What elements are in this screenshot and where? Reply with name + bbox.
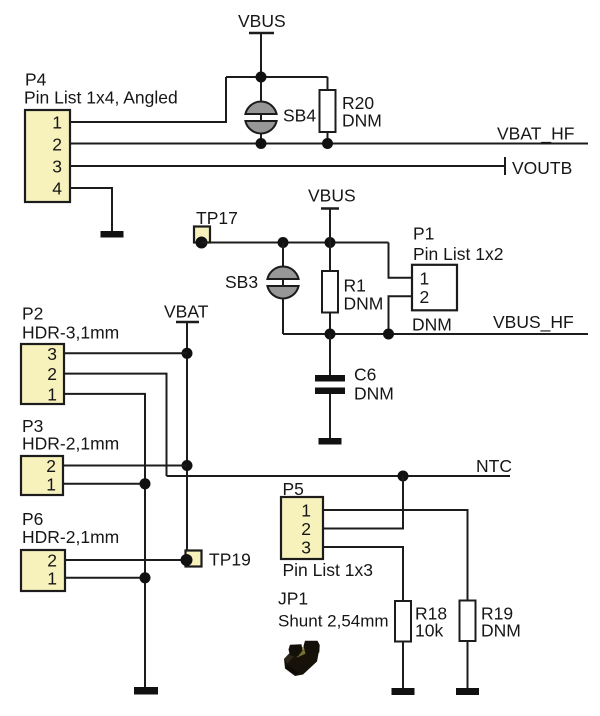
connector P5 <box>281 479 373 580</box>
svg-text:TP17: TP17 <box>196 208 238 228</box>
svg-text:VOUTB: VOUTB <box>512 158 572 178</box>
svg-text:1: 1 <box>47 568 57 588</box>
node P6 pin1 junction <box>140 572 151 583</box>
node SB4 bottom on VBAT_HF <box>256 138 267 149</box>
wire P4 pin4 to ground <box>70 188 112 232</box>
solder bridge SB3 <box>225 267 299 299</box>
wire R19 bottom lead <box>467 641 469 688</box>
connector P6 <box>21 509 119 591</box>
node R20 bottom on VBAT_HF <box>322 138 333 149</box>
net VBAT_HF wire <box>70 143 588 145</box>
solder bridge SB4 <box>245 102 316 134</box>
node P3 pin1 junction <box>140 478 151 489</box>
wire P5 pin2 up to NTC <box>323 476 403 529</box>
svg-text:HDR-2,1mm: HDR-2,1mm <box>22 434 119 454</box>
svg-text:VBUS: VBUS <box>308 186 356 206</box>
wire VBAT vertical <box>186 323 188 560</box>
svg-text:HDR-3,1mm: HDR-3,1mm <box>22 323 119 343</box>
svg-text:3: 3 <box>47 344 57 364</box>
svg-text:1: 1 <box>52 113 62 133</box>
net label VBUS (top) <box>238 11 286 33</box>
node R1 bottom on VBUS_HF <box>325 329 336 340</box>
svg-text:2: 2 <box>301 519 311 539</box>
net label VBAT <box>164 302 209 323</box>
node junction VBUS/SB4/R20 <box>256 72 267 83</box>
resistor R20 <box>320 90 382 132</box>
svg-text:1: 1 <box>420 268 430 288</box>
svg-text:P1: P1 <box>413 224 434 244</box>
svg-text:DNM: DNM <box>344 294 384 314</box>
connector P4 <box>24 70 178 203</box>
svg-text:VBAT: VBAT <box>164 302 209 322</box>
connector P1 <box>412 224 503 335</box>
svg-text:DNM: DNM <box>481 621 521 641</box>
node P5 pin2 on NTC <box>398 471 409 482</box>
svg-text:C6: C6 <box>354 365 376 385</box>
svg-text:2: 2 <box>420 287 430 307</box>
wire R20 bottom lead <box>327 132 329 144</box>
svg-text:VBUS_HF: VBUS_HF <box>493 312 574 333</box>
svg-text:P6: P6 <box>22 509 43 529</box>
svg-text:P2: P2 <box>22 304 43 324</box>
wire horizontal at node to R20 branch <box>226 76 328 78</box>
svg-text:Shunt 2,54mm: Shunt 2,54mm <box>278 612 389 631</box>
wire P2 pin3 to VBAT <box>64 352 187 354</box>
wire VOUTB from P4 pin3 <box>70 165 505 167</box>
svg-text:NTC: NTC <box>476 456 512 476</box>
wire C6 bottom lead <box>329 394 331 438</box>
wire R18 bottom lead <box>402 642 404 689</box>
svg-text:VBUS: VBUS <box>238 11 286 31</box>
svg-text:R1: R1 <box>344 276 366 296</box>
net tick VOUTB <box>504 157 506 175</box>
wire P4 pin1 elbow <box>70 77 226 122</box>
wire TP17 to P1 branch <box>202 242 389 244</box>
wire P1 pin2 elbow <box>389 296 413 334</box>
resistor R1 <box>322 271 383 314</box>
node VBUS/R1 top junction <box>325 237 336 248</box>
wire P5 pin1 to R19 <box>323 510 468 601</box>
resistor R19 <box>460 601 521 642</box>
ground (R18) <box>392 688 415 695</box>
svg-text:1: 1 <box>46 474 56 494</box>
svg-text:DNM: DNM <box>412 315 452 335</box>
svg-text:4: 4 <box>52 179 62 199</box>
wire R20 top lead <box>327 77 329 91</box>
node SB3 top junction <box>278 237 289 248</box>
wire P1 pin1 elbow <box>389 243 413 278</box>
wire R1 bottom lead <box>329 313 331 335</box>
connector P2 <box>21 304 119 405</box>
test point TP19 <box>181 550 251 570</box>
svg-text:Pin List 1x4, Angled: Pin List 1x4, Angled <box>24 88 178 108</box>
svg-text:Pin List 1x3: Pin List 1x3 <box>283 560 373 580</box>
wire P2 pin2 to NTC <box>64 374 167 476</box>
jumper JP1 shunt image <box>284 641 320 676</box>
test point TP17 <box>194 208 238 249</box>
svg-text:1: 1 <box>301 501 311 521</box>
svg-text:JP1: JP1 <box>278 589 308 609</box>
ground (pin1 rail) <box>134 687 158 695</box>
net NTC wire <box>167 475 511 477</box>
svg-text:SB4: SB4 <box>283 106 316 126</box>
node P3 pin2 on VBAT <box>182 460 193 471</box>
capacitor C6 <box>315 365 394 404</box>
svg-text:2: 2 <box>47 364 57 384</box>
net VBUS_HF wire <box>283 333 588 335</box>
ground (R19) <box>456 688 479 695</box>
wire P6 pin1 to ground rail <box>65 577 145 579</box>
wire VBUS stub to R1 <box>329 210 331 272</box>
svg-text:DNM: DNM <box>342 111 382 131</box>
node TP19 / P6 pin2 on VBAT <box>181 554 193 566</box>
wire P6 pin2 to TP19 <box>65 559 187 561</box>
svg-text:10k: 10k <box>415 621 443 641</box>
wire P2 pin1 to ground rail <box>64 394 145 687</box>
wire P5 pin3 down to R18 <box>323 547 403 601</box>
wire through SB3 down to VBUS_HF <box>282 243 284 335</box>
wire P3 pin1 to ground rail <box>63 483 145 485</box>
wire C6 top lead <box>329 334 331 375</box>
svg-text:DNM: DNM <box>354 384 394 404</box>
jumper JP1 labels <box>278 589 389 631</box>
node P1 pin2 on VBUS_HF <box>383 329 394 340</box>
ground (C6) <box>319 438 342 445</box>
wire P3 pin2 to VBAT <box>63 465 187 467</box>
svg-text:HDR-2,1mm: HDR-2,1mm <box>22 527 119 547</box>
svg-text:VBAT_HF: VBAT_HF <box>497 124 574 145</box>
svg-text:1: 1 <box>47 384 57 404</box>
svg-text:3: 3 <box>301 538 311 558</box>
svg-text:Pin List 1x2: Pin List 1x2 <box>413 244 503 264</box>
connector P3 <box>21 416 119 495</box>
svg-text:P4: P4 <box>25 70 47 90</box>
node P2 pin3 on VBAT <box>182 348 193 359</box>
resistor R18 <box>395 601 447 642</box>
svg-text:SB3: SB3 <box>225 272 258 292</box>
svg-text:2: 2 <box>52 135 62 155</box>
net label VBUS (middle) <box>308 186 356 209</box>
svg-text:2: 2 <box>46 456 56 476</box>
svg-text:TP19: TP19 <box>209 550 251 570</box>
wire VBUS stub down through SB4 <box>260 34 262 144</box>
ground (P4 pin4) <box>101 231 124 238</box>
svg-text:3: 3 <box>52 157 62 177</box>
